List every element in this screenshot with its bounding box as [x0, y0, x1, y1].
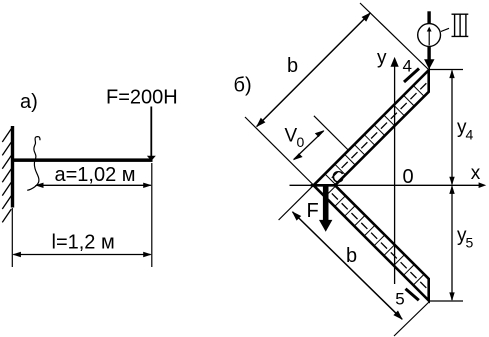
svg-text:4: 4 [466, 127, 474, 143]
svg-text:l=1,2 м: l=1,2 м [52, 232, 115, 254]
dial indicator needle [427, 27, 432, 46]
dimension V0 [293, 130, 324, 160]
svg-text:а=1,02 м: а=1,02 м [55, 164, 136, 186]
dial indicator circle [418, 24, 441, 47]
section mark 5 [406, 289, 419, 301]
indicator mount symbol III [452, 14, 469, 36]
extension line b top NE [360, 3, 429, 70]
svg-text:C: C [332, 168, 344, 187]
top bar 4 (beam) [314, 70, 429, 185]
extension line top right [429, 69, 464, 71]
dimension y4 [449, 70, 454, 186]
indicator leader line [441, 28, 449, 31]
svg-text:y: y [377, 48, 387, 69]
dimension l line [12, 252, 152, 257]
dimension b top [256, 12, 371, 127]
svg-text:x: x [471, 163, 481, 184]
svg-text:4: 4 [403, 57, 412, 76]
bottom bar rungs [325, 186, 424, 285]
svg-text:5: 5 [395, 290, 404, 309]
beam a [13, 158, 153, 162]
section mark 4 [404, 69, 419, 83]
indicator load arrow top [424, 11, 434, 69]
wall line [11, 126, 14, 208]
extension line V0 [314, 116, 348, 150]
extension line bottom SE [394, 302, 430, 337]
top bar dashed axis [332, 82, 428, 178]
force F arrow (part b) [319, 186, 332, 232]
y axis [391, 57, 399, 284]
squiggle section mark [27, 137, 40, 191]
extension line through vertex SW [279, 185, 314, 220]
svg-text:а): а) [20, 91, 38, 113]
extension line left [11, 208, 13, 267]
svg-text:0: 0 [403, 166, 414, 188]
bottom bar dashed axis [332, 193, 428, 289]
extension line right [151, 163, 153, 267]
svg-text:б): б) [234, 75, 252, 97]
wall hatching [2, 129, 11, 223]
x axis [290, 182, 487, 188]
svg-text:5: 5 [466, 235, 474, 251]
top bar rungs [325, 86, 424, 185]
svg-text:0: 0 [297, 134, 305, 150]
svg-text:F=200Н: F=200Н [106, 87, 178, 109]
svg-text:F: F [307, 200, 319, 222]
extension line through vertex NW [245, 117, 325, 197]
force F arrow (part a) [147, 107, 156, 162]
svg-text:b: b [287, 55, 298, 77]
dimension b bottom [292, 211, 403, 320]
extension line bottom right [429, 300, 464, 302]
dimension a line [35, 183, 152, 188]
dimension y5 [449, 185, 454, 301]
bottom bar 5 (beam) [314, 185, 429, 300]
svg-text:b: b [346, 245, 357, 267]
